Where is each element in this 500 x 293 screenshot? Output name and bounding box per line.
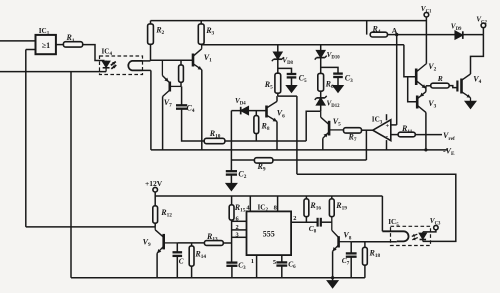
pin 8 lead <box>274 196 278 212</box>
pin 3 wire <box>232 231 247 238</box>
wire A to diode VD9 <box>397 34 456 36</box>
transistor V4 <box>457 74 481 98</box>
LED of IC4 <box>103 61 117 72</box>
wire emitter node <box>425 86 427 92</box>
wire VD12 jog <box>306 111 321 141</box>
wire V3 base drop <box>408 77 418 102</box>
wire R9 line <box>231 159 366 161</box>
capacitor C4 <box>176 86 204 141</box>
ground below V4 <box>466 98 476 108</box>
wire VC1 vertical <box>425 17 427 64</box>
photodetector of IC5 <box>382 231 408 241</box>
transistor V5 <box>321 111 344 138</box>
wire R4 drop <box>366 21 368 35</box>
transistor V1 <box>193 44 212 69</box>
wire feedback vertical x=25.8 <box>25 50 27 227</box>
svg-text:8: 8 <box>274 205 277 212</box>
wire V7 collector to rail <box>162 97 164 150</box>
wire IC4 collector pin <box>143 59 151 62</box>
LED of IC5 <box>412 232 426 242</box>
wire VC2 drop <box>471 35 484 74</box>
svg-text:R: R <box>437 74 443 83</box>
wire input 2 jog to IC1 <box>26 49 36 51</box>
svg-text:1: 1 <box>251 258 254 265</box>
wire R7 to op amp <box>362 129 373 131</box>
resistor R3 <box>198 21 214 45</box>
wire opto emitter drop <box>150 70 152 149</box>
resistor R5 <box>264 73 281 96</box>
wire top rail <box>151 20 427 22</box>
wire V9 base line <box>177 242 204 244</box>
wire V6 collector <box>276 96 278 101</box>
resistor R19 <box>329 196 347 217</box>
wire ground drop x=71 <box>70 72 72 278</box>
resistor R <box>426 74 449 88</box>
op-amp IC3 <box>372 114 391 150</box>
wire feedback line <box>26 226 155 228</box>
capacitor C3 <box>333 73 353 86</box>
wire opto loop vertical <box>296 96 298 174</box>
wire bottom rail <box>71 277 365 279</box>
resistor R7 <box>344 128 362 144</box>
wire 12V rail <box>155 192 382 206</box>
svg-text:≥1: ≥1 <box>42 41 50 50</box>
pin 6 wire <box>232 215 247 222</box>
pin 2 wire <box>232 224 247 231</box>
resistor R11 <box>398 124 415 137</box>
timer IC2 555 <box>247 204 292 256</box>
wire V3 collector drop <box>424 112 427 151</box>
wire V2 collector diag <box>425 63 428 65</box>
wire R1 to opto LED <box>83 45 105 61</box>
wire output drop to R9 <box>365 130 367 160</box>
ground below V8 <box>328 278 338 288</box>
resistor R13 <box>204 232 223 245</box>
pin 5 and capacitor C6 <box>273 255 296 278</box>
terminal VC1 <box>421 5 432 17</box>
ground below C3 <box>333 86 342 92</box>
capacitor C5 <box>287 73 307 86</box>
resistor R15 <box>229 196 246 220</box>
svg-text:2: 2 <box>236 224 239 231</box>
wire negative rail <box>151 147 455 158</box>
wire zener rail <box>201 44 404 46</box>
wire V2 base drop <box>404 45 416 77</box>
transistor V2 <box>416 62 436 88</box>
node A <box>388 26 399 36</box>
wire 555 left bus <box>231 220 233 262</box>
pin 2 right wire <box>291 215 318 222</box>
wire VD9 to VC2 <box>463 28 484 35</box>
capacitor C1 <box>226 260 246 278</box>
svg-text:2: 2 <box>293 215 296 222</box>
resistor R18 <box>363 242 381 278</box>
wire C8 to R19 node <box>321 221 332 223</box>
resistor R12 <box>153 206 172 227</box>
capacitor C <box>173 243 184 278</box>
wire IC4 emitter pin <box>143 69 151 71</box>
wire R13 to bus <box>223 242 231 244</box>
wire R11 to Vref <box>415 131 455 142</box>
wire V5 emitter drop <box>322 138 324 150</box>
terminal VC2 <box>476 16 487 28</box>
svg-text:555: 555 <box>263 230 275 239</box>
wire LED cathode loop <box>297 174 456 241</box>
resistor R1 <box>63 33 82 47</box>
wire 12V to IC5 drop <box>381 196 383 231</box>
resistor R16 <box>304 196 321 222</box>
wire LED cathode line <box>0 71 106 73</box>
wire bus vertical x=231.4 <box>230 111 232 172</box>
gate IC1 <box>36 27 56 54</box>
transistor V6 <box>267 101 286 121</box>
pin 1 lead <box>251 255 257 278</box>
ground below C5 <box>287 86 296 92</box>
resistor R9 <box>254 158 273 173</box>
resistor Rx above V7 base <box>179 60 184 86</box>
wire V1 emitter drop <box>201 70 203 150</box>
zener VD8 <box>272 45 294 73</box>
diode VD9 <box>451 22 463 39</box>
wire C5 tap <box>278 68 292 74</box>
wire R10 to bus <box>225 140 306 142</box>
resistor R14 <box>189 243 206 278</box>
zener VD10 <box>315 45 341 73</box>
wire V1 base line <box>150 59 193 61</box>
resistor R4 <box>370 24 387 37</box>
resistor R2 <box>148 21 165 61</box>
wire V8 emitter drop <box>331 251 334 279</box>
terminal +12V <box>145 179 163 192</box>
ground below C2 <box>226 184 236 191</box>
resistor R10 <box>204 129 225 144</box>
transistor V9 <box>143 227 178 253</box>
zener VD12 <box>315 91 340 111</box>
resistor R8 <box>254 111 270 141</box>
svg-text:+: + <box>386 123 390 130</box>
wire Vd4 line <box>231 110 266 112</box>
terminal VC3 <box>430 217 441 230</box>
photodetector of IC4 <box>128 61 142 71</box>
svg-text:+12V: +12V <box>145 179 163 188</box>
capacitor C2 <box>226 170 247 184</box>
wire R to V4 gate <box>449 86 457 88</box>
wire IC1 output <box>56 44 64 46</box>
optocoupler IC4 box <box>100 48 143 75</box>
resistor R6 <box>318 73 334 91</box>
wire V9 emitter drop <box>156 253 158 278</box>
wire input 1 to IC1 <box>0 40 36 42</box>
transistor V8 <box>332 217 352 252</box>
capacitor C8 <box>309 218 321 235</box>
svg-text:3: 3 <box>236 231 239 238</box>
wire op amp plus input <box>391 124 397 126</box>
svg-text:C: C <box>179 258 184 266</box>
pin 4 lead <box>246 196 250 212</box>
wire V6 emitter drop <box>276 122 278 150</box>
wire R5 bottom node <box>278 95 297 97</box>
wire op amp minus input <box>391 134 398 136</box>
svg-text:5: 5 <box>273 259 276 266</box>
transistor V7 <box>162 60 181 108</box>
wire LED anode to VC3 <box>423 230 436 232</box>
capacitor C7 <box>342 242 357 278</box>
wire V8 base line <box>351 241 397 243</box>
wire C3 tap <box>321 67 338 73</box>
diode VD4 <box>235 97 248 114</box>
wire A vertical <box>396 35 398 125</box>
transistor V3 <box>417 92 436 113</box>
optocoupler IC5 box <box>388 218 430 245</box>
